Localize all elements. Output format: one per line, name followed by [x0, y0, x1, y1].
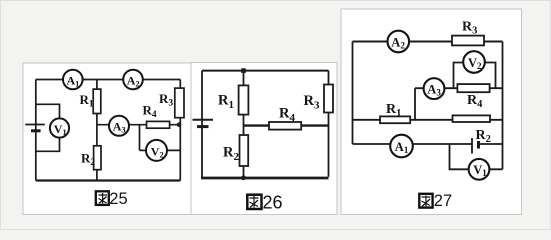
wire: P1 middle branch R1-R2 — [96, 80, 98, 181]
ammeter A2 (P1) — [123, 70, 143, 90]
resistor R1 (P3) — [380, 116, 410, 123]
wire: P2 R4 row — [244, 124, 329, 126]
resistor R3 (P2) — [324, 85, 333, 113]
caption fig box 27 — [419, 192, 452, 210]
wire: P2 right — [328, 71, 330, 177]
ammeter A1 (P3) — [390, 135, 413, 158]
svg-text:26: 26 — [263, 193, 283, 213]
ammeter A1 (P1) — [63, 70, 83, 90]
wire: P3 A3 drop — [414, 88, 416, 120]
panel frame 1 — [23, 63, 191, 215]
junction node (P2 bottom) — [241, 175, 246, 180]
ammeter A3 (P1) — [109, 116, 129, 136]
panel frame 3 — [341, 9, 522, 215]
wire: P3 V2 loop — [454, 63, 496, 89]
battery cell P1 — [25, 125, 45, 131]
voltmeter V2 (P3) — [463, 51, 485, 73]
wire: P1 top — [36, 79, 181, 81]
ammeter A3 (P3) — [424, 78, 445, 99]
wire: P2 left — [201, 71, 203, 177]
resistor R4 (P1) — [147, 121, 170, 128]
wire: P2 R1-R2 branch — [243, 71, 245, 178]
wire: P3 A3-R4 row — [415, 87, 503, 89]
battery cell P2 — [193, 120, 214, 127]
resistor R1 (P1) — [93, 89, 101, 113]
wire: P3 R1-R2 row — [353, 119, 503, 121]
voltmeter V1 (P3) — [469, 159, 490, 180]
resistor R3 (P1) — [175, 88, 184, 118]
resistor R2 (P3) — [453, 115, 491, 122]
panel frame 2 — [191, 63, 337, 215]
wire: P1 V2 branch — [140, 125, 181, 151]
resistor R2 (P2) — [240, 135, 249, 166]
wire: P2 top — [202, 70, 329, 72]
caption fig box 25 — [96, 190, 128, 208]
ammeter A2 (P3) — [388, 31, 410, 53]
svg-text:25: 25 — [109, 190, 127, 208]
resistor R4 (P3) — [457, 84, 489, 92]
wire: P2 bottom — [201, 177, 329, 180]
wire: P1 left (battery branch) — [35, 80, 37, 181]
resistor R1 (P2) — [239, 85, 249, 114]
junction node (P2 top) — [241, 68, 246, 73]
caption fig box 26 — [247, 193, 282, 213]
svg-text:27: 27 — [434, 192, 452, 210]
junction node (P1 R4/right wire) — [177, 122, 182, 127]
battery cell P3 — [472, 138, 479, 154]
wire: P3 A1 row — [353, 143, 503, 145]
wire: P3 top — [353, 41, 503, 43]
wire: P3 V1 loop — [450, 144, 503, 169]
resistor R2 (P1) — [94, 146, 101, 170]
wire: P3 left — [352, 42, 354, 145]
wire: P1 right — [179, 80, 181, 181]
wire: P1 A3-R4 row — [97, 124, 180, 126]
voltmeter V1 (P1) — [50, 118, 69, 137]
wire: P3 right — [502, 42, 504, 170]
wire: P1 bottom — [36, 179, 181, 181]
resistor R4 (P2) — [269, 122, 301, 130]
wire: P1 V1 parallel loop — [36, 104, 60, 151]
resistor R3 (P3) — [452, 36, 484, 46]
voltmeter V2 (P1) — [146, 140, 167, 161]
